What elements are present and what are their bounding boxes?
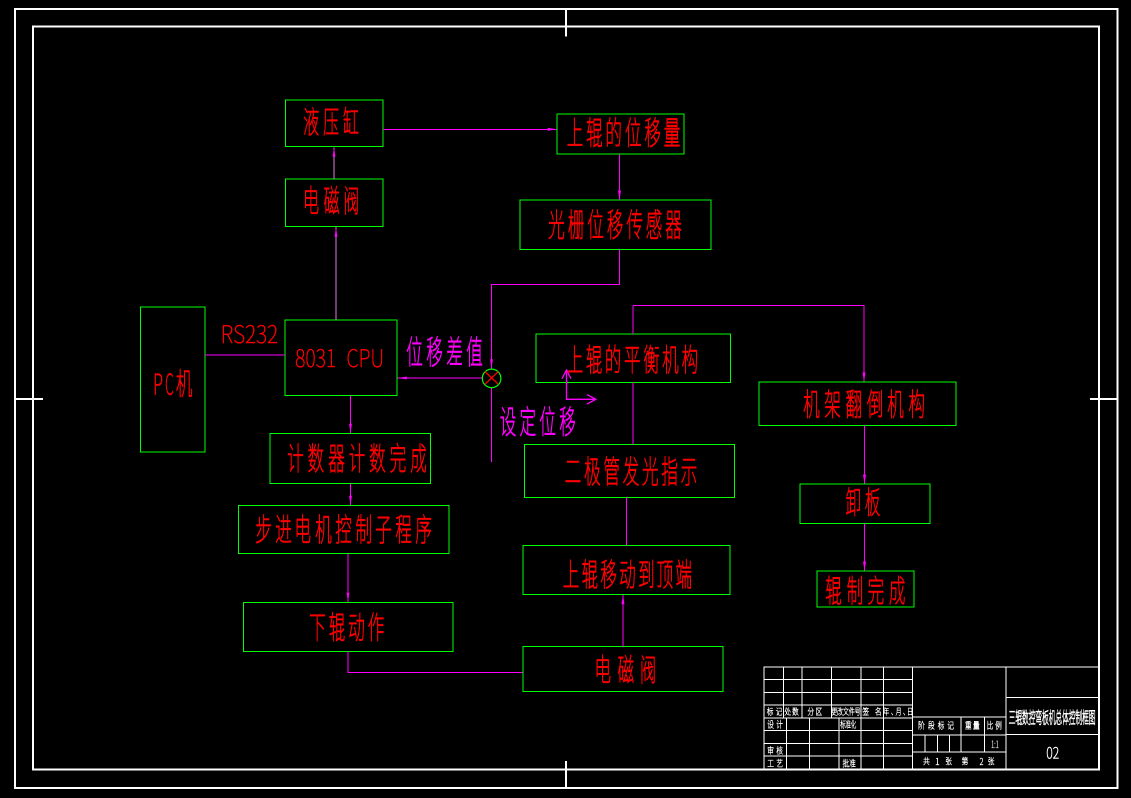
label 二极管发光指示	[566, 457, 696, 486]
cell 标准化	[840, 720, 856, 728]
cell 更改文件号	[832, 707, 860, 715]
frame centering tick right	[1090, 398, 1118, 400]
label 8031 CPU	[296, 349, 382, 367]
comparison node X mark	[485, 372, 498, 385]
axis arrows symbol	[562, 370, 596, 404]
arrowhead into 卸板	[863, 475, 866, 484]
drawing number 02	[1047, 747, 1059, 759]
title block vertical dividers	[911, 667, 913, 770]
title block outline	[764, 667, 1099, 770]
box 上辊的位移量	[557, 114, 684, 154]
box 卸板	[800, 484, 930, 524]
box 光栅位移传感器	[520, 200, 711, 249]
box 上辊的平衡机构	[536, 334, 731, 383]
wire 计数器计数完成 to 步进电机控制子程序	[350, 484, 352, 505]
wire 机架翻倒机构 to 卸板	[864, 426, 866, 484]
label 步进电机控制子程序	[256, 514, 431, 543]
label PC机	[155, 369, 192, 397]
wire 步进电机控制子程序 to 下辊动作	[347, 554, 349, 602]
label 计数器计数完成	[288, 443, 426, 472]
label RS232	[223, 325, 277, 343]
wire 下辊动作 to 电磁阀 lower	[348, 652, 523, 673]
title block right section horizontals	[1006, 697, 1099, 699]
label 光栅位移传感器	[549, 210, 681, 239]
arrowhead into 上辊移动到顶端	[622, 595, 625, 604]
arrowhead into 下辊动作	[347, 593, 350, 602]
cell 处数	[785, 707, 799, 715]
frame centering tick left	[15, 398, 43, 400]
scale 1:1	[992, 741, 999, 748]
label 辊制完成	[826, 576, 904, 605]
box 电磁阀 lower	[523, 647, 723, 692]
annotation 位移差值	[407, 336, 482, 366]
title block middle section verticals	[960, 717, 962, 752]
cell 比例	[988, 721, 1002, 729]
arrowhead into 电磁阀	[335, 228, 338, 237]
box 二极管发光指示	[525, 445, 735, 498]
wire comparison node to 8031 CPU	[398, 377, 483, 379]
wire PC机 to 8031 CPU (RS232)	[205, 354, 285, 356]
arrowhead into 液压缸	[333, 148, 336, 157]
label 电磁阀 upper	[305, 186, 357, 214]
cell 年月日	[883, 707, 912, 715]
title block left grid horizontal lines	[764, 679, 912, 681]
cell 签名	[863, 707, 881, 715]
label 上辊的平衡机构	[568, 345, 697, 374]
wire 光栅位移传感器 to comparison node	[492, 250, 620, 369]
arrowhead into 上辊的位移量	[548, 128, 557, 131]
arrowhead into 计数器计数完成	[349, 424, 352, 433]
box 电磁阀 upper	[286, 179, 384, 227]
wire 上辊的位移量 to 光栅位移传感器	[619, 155, 621, 201]
arrowhead into 8031 CPU	[398, 377, 407, 380]
box 8031 CPU	[285, 320, 397, 396]
cell 工艺	[768, 759, 783, 767]
comparison node circle	[482, 369, 501, 388]
arrowhead into 机架翻倒机构	[863, 373, 866, 382]
box 步进电机控制子程序	[239, 506, 450, 554]
title block stage-mark sub cells	[924, 735, 926, 752]
wire 8031 CPU to 电磁阀	[335, 227, 337, 320]
label 电磁阀 lower	[597, 655, 655, 683]
arrowhead into 辊制完成	[863, 562, 866, 571]
wire branch to 机架翻倒机构	[633, 306, 864, 382]
cell 重量	[965, 721, 979, 729]
wire 设定位移 input to node	[491, 388, 493, 462]
label 上辊移动到顶端	[564, 559, 691, 588]
title block middle section horizontals	[912, 716, 1006, 718]
label 上辊的位移量	[568, 117, 680, 147]
arrowhead into 步进电机控制子程序	[349, 496, 352, 505]
arrowhead into 光栅位移传感器	[618, 191, 621, 200]
box 下辊动作	[244, 603, 454, 652]
frame centering tick bottom	[565, 761, 567, 788]
box 液压缸	[286, 100, 384, 147]
title 三辊数控弯板机总体控制框图	[1009, 710, 1095, 725]
cell 批准	[843, 759, 856, 767]
wire 8031 CPU to 计数器计数完成	[350, 396, 352, 433]
box 上辊移动到顶端	[523, 546, 730, 595]
wire 二极管发光指示 through 上辊的平衡机构 lower	[632, 383, 634, 445]
wire 卸板 to 辊制完成	[864, 524, 866, 571]
annotation 设定位移	[501, 406, 575, 436]
box 计数器计数完成	[270, 434, 431, 484]
label 液压缸	[304, 107, 358, 135]
label 下辊动作	[310, 612, 383, 641]
cell 阶段标记	[919, 721, 954, 729]
wire 液压缸 to 上辊的位移量	[383, 128, 557, 130]
frame centering tick top	[565, 9, 567, 37]
arrowhead into comparison node	[490, 359, 493, 368]
label 卸板	[846, 487, 879, 515]
box 机架翻倒机构	[759, 382, 956, 426]
cell 标记	[767, 707, 782, 715]
cell 设计	[768, 720, 783, 728]
title block left grid verticals lower	[785, 718, 787, 769]
title block left grid verticals upper	[783, 667, 785, 718]
wire 上辊移动到顶端 to 二极管发光指示	[626, 498, 628, 546]
cell 共张第张	[924, 757, 995, 765]
label 机架翻倒机构	[804, 390, 924, 418]
cell 审核	[768, 746, 783, 754]
box PC机	[141, 307, 206, 452]
cell 分区	[808, 708, 822, 716]
box 辊制完成	[817, 571, 914, 607]
wire 电磁阀 lower to 上辊移动到顶端	[622, 595, 624, 647]
wire 上辊的平衡机构 upper stub	[632, 306, 634, 335]
wire 电磁阀 to 液压缸	[333, 148, 335, 180]
